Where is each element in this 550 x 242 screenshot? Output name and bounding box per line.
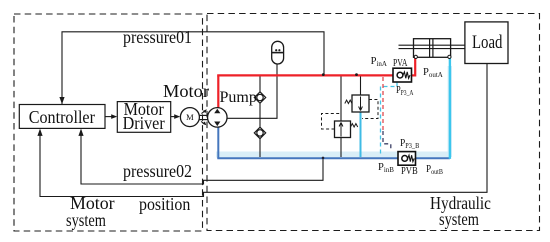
- svg-text:M: M: [186, 112, 194, 122]
